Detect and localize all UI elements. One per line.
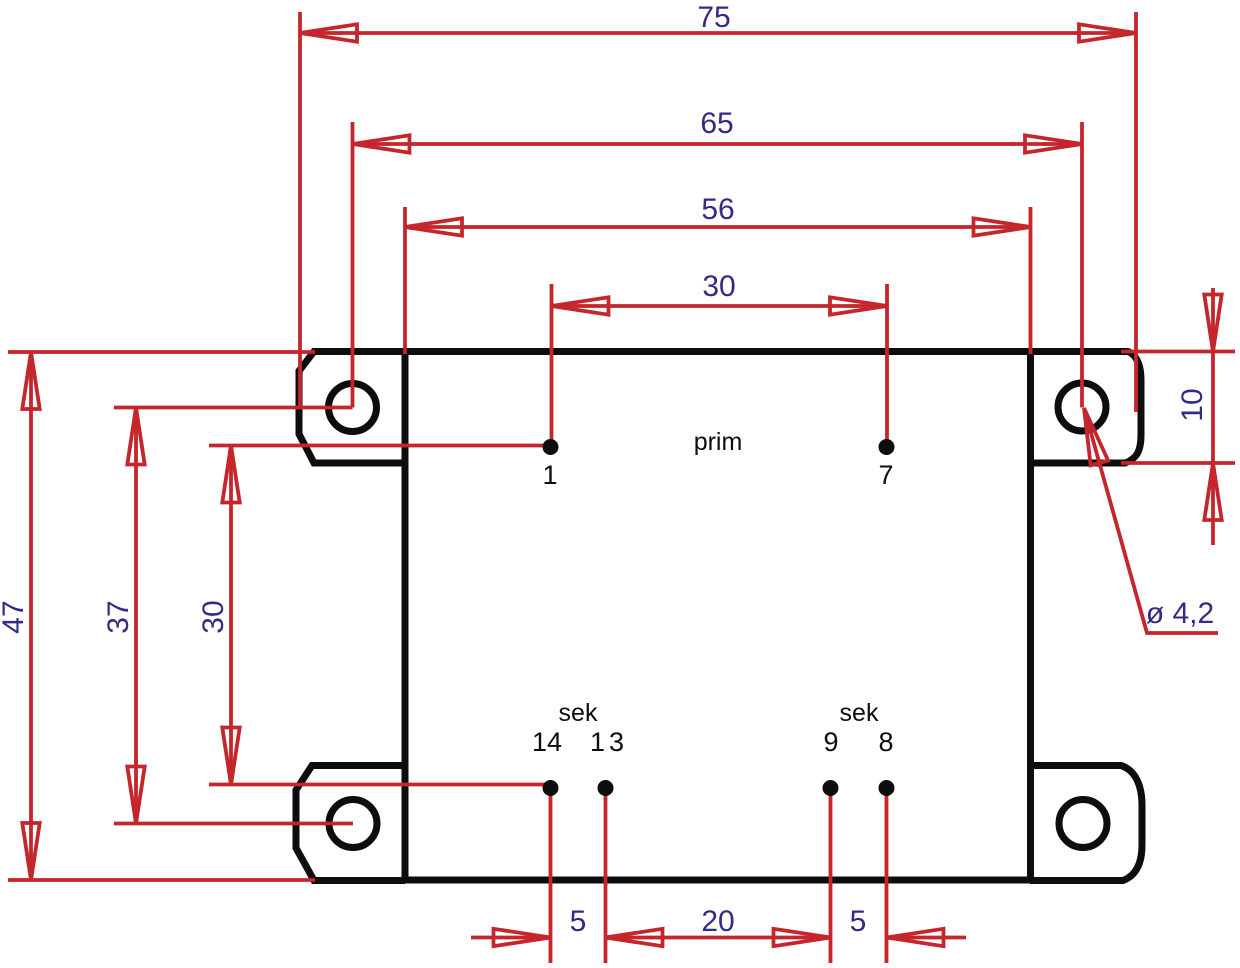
svg-text:sek: sek [840,699,879,727]
dimension 20 arrow right [774,929,831,946]
leader line diameter 4,2 [1084,408,1218,633]
svg-text:prim: prim [694,428,743,456]
pin 9 dot [823,780,839,796]
dimension 65 arrow right [1025,135,1082,152]
pin 14 dot [543,780,559,796]
dimension 47 connector bottom [8,878,315,882]
dimension 30 left line [229,446,233,785]
dimension 56 arrow right [974,218,1031,235]
svg-text:1: 1 [542,460,557,490]
dimension 10 connector bottom [1121,461,1235,465]
svg-text:sek: sek [559,699,598,727]
mounting tab bottom-right [1030,766,1142,881]
dimension 20 arrow left [606,929,663,946]
svg-text:9: 9 [823,727,838,757]
mounting tab top-right [1030,352,1141,464]
dimension 5 right outside arrow [887,929,944,946]
dimension 5 left outside arrow shaft [471,936,551,940]
dimension 56 arrow left [405,218,462,235]
pin 8 dot [879,780,895,796]
svg-text:56: 56 [701,193,734,226]
mounting hole bottom-left [329,800,377,848]
dimension 20 line [606,936,831,940]
dimension 75 arrow right [1079,24,1136,41]
dimension 10 connector top [1121,350,1235,354]
dimension 65 extension line left [351,122,355,408]
leader arrow [1084,408,1108,465]
svg-text:20: 20 [701,905,734,938]
svg-text:7: 7 [878,460,893,490]
dimension 75 extension line right [1134,12,1138,412]
dimension 75 extension line left [298,12,302,407]
dimension 30 top line [552,304,888,308]
dimension 56 line [405,225,1031,229]
svg-text:30: 30 [197,600,230,633]
dimension 56 extension line right [1029,207,1033,354]
dimension 30 top extension line left [550,284,554,447]
pin 9 extension line [829,790,833,963]
pin 14 extension line [549,790,553,963]
dimension 30 left connector top [209,444,553,448]
dimension 10 arrow up [1204,463,1221,520]
dimension 5 right outside arrow shaft [887,936,967,940]
pin 13 dot [598,780,614,796]
dimension 5 left outside arrow [494,929,551,946]
dimension 37 arrow down [127,767,144,824]
dimension 75 arrow left [300,24,357,41]
dimension 47 arrow down [22,823,39,880]
svg-text:5: 5 [850,905,867,938]
dimension 75 line [300,31,1136,35]
svg-text:ø 4,2: ø 4,2 [1146,597,1214,630]
dimension 65 line [353,142,1083,146]
pin 7 dot [879,439,895,455]
dimension 30 top extension line right [885,284,889,447]
dimension 30 top arrow right [830,297,887,314]
svg-text:47: 47 [0,600,30,633]
dimension 47 arrow up [22,352,39,409]
dimension 30 left connector bottom [209,783,549,787]
dimension 10 arrow down [1204,295,1221,352]
dimension 37 connector top [114,406,353,410]
svg-text:37: 37 [102,600,135,633]
svg-text:14: 14 [532,727,562,757]
dimension 37 line [134,408,138,824]
svg-text:5: 5 [570,905,587,938]
dimension 65 extension line right [1080,122,1084,408]
svg-text:13: 13 [590,727,628,757]
svg-text:30: 30 [702,270,735,303]
svg-text:8: 8 [878,727,893,757]
transformer body outline [405,352,1031,881]
pin 13 extension line [604,790,608,963]
svg-text:65: 65 [700,107,733,140]
dimension 37 connector bottom [114,822,353,826]
dimension 30 top arrow left [552,297,609,314]
dimension 56 extension line left [403,207,407,354]
mounting hole top-left [329,384,377,432]
dimension 10 line lower tail [1211,463,1215,545]
dimension 65 arrow left [353,135,410,152]
dimension 10 line middle [1211,352,1215,464]
dimension 37 arrow up [127,408,144,465]
pin 1 dot [543,439,559,455]
svg-text:10: 10 [1176,388,1209,421]
mounting tab bottom-left [296,766,405,881]
dimension 30 left arrow down [222,728,239,785]
mounting tab top-left [299,352,405,464]
svg-text:75: 75 [697,1,730,34]
mounting hole top-right [1058,383,1106,431]
dimension 47 line [29,352,33,880]
dimension 10 line upper tail [1211,288,1215,352]
dimension 30 left arrow up [222,446,239,503]
pin 8 extension line [885,790,889,963]
dimension 47 connector top [8,350,315,354]
mounting hole bottom-right [1059,800,1107,848]
